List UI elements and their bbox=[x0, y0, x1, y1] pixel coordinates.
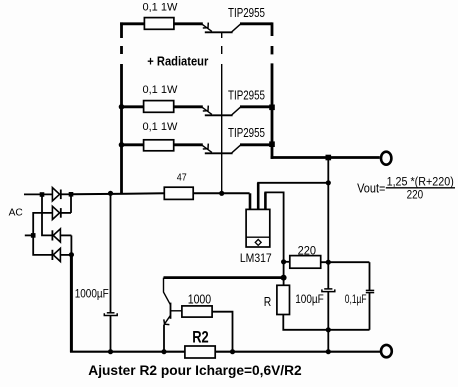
resistor R2 bbox=[185, 346, 215, 358]
wire top rail (unregulated input) bbox=[71, 193, 164, 194]
node output junction top bbox=[326, 155, 332, 161]
wire output rail vertical bbox=[327, 158, 329, 263]
wire base line (dash-dot vertical) bbox=[221, 32, 223, 38]
wire line A (AC1 to D3 cathode) bbox=[42, 194, 53, 235]
diode D1 bbox=[52, 188, 71, 201]
svg-text:AC: AC bbox=[9, 208, 23, 219]
pin IN (left) bbox=[249, 193, 252, 209]
wire AC1 input rail bbox=[24, 193, 53, 195]
resistor 47 bbox=[164, 187, 193, 199]
svg-text:1000: 1000 bbox=[188, 293, 212, 307]
svg-text:1000µF: 1000µF bbox=[75, 288, 109, 301]
resistor R_E3 0,1 1W row3 bbox=[120, 140, 203, 151]
wire caps bottom rail bbox=[328, 329, 369, 331]
wire line D (D3/D4 anodes) bbox=[70, 235, 72, 255]
node base-line junction bbox=[219, 191, 224, 196]
svg-text:220: 220 bbox=[298, 244, 317, 258]
svg-text:0,1 1W: 0,1 1W bbox=[143, 84, 178, 96]
node 1000/R2 junction bbox=[230, 349, 235, 354]
svg-text:0,1 1W: 0,1 1W bbox=[143, 121, 178, 133]
transistor Q4 current limit bbox=[164, 278, 182, 352]
diode D4 (reversed) bbox=[52, 248, 71, 261]
regulator U1 LM317 package bbox=[246, 209, 270, 247]
node ADJ/collector junction bbox=[281, 275, 287, 281]
svg-text:Ajuster R2 pour Icharge=0,6V/R: Ajuster R2 pour Icharge=0,6V/R2 bbox=[88, 363, 301, 379]
capacitor C1 1000uF bbox=[104, 193, 117, 351]
terminal output + bbox=[381, 152, 391, 165]
capacitor C2 100uF bbox=[322, 262, 335, 330]
resistor R_E1 0,1 1W row1 bbox=[120, 18, 203, 30]
wire negative rail (thick vertical) bbox=[70, 255, 73, 353]
node 220 right junction bbox=[326, 260, 331, 265]
diode D2 bbox=[52, 206, 71, 219]
node emitter junction bbox=[161, 349, 166, 354]
svg-text:0,1 1W: 0,1 1W bbox=[143, 1, 178, 13]
transistor Q1 TIP2955 bbox=[202, 23, 272, 33]
svg-text:TIP2955: TIP2955 bbox=[228, 126, 265, 140]
transistor Q3 TIP2955 bbox=[202, 144, 272, 154]
wire R bottom lead bbox=[283, 315, 328, 330]
node left rail row3 bbox=[119, 142, 125, 148]
wire bottom rail bbox=[70, 351, 380, 353]
svg-text:100µF: 100µF bbox=[295, 293, 324, 306]
svg-text:0,1µF: 0,1µF bbox=[345, 293, 367, 306]
node AC2 junction bbox=[31, 233, 36, 238]
right rail (dash-dot thick) bbox=[271, 22, 274, 36]
node left rail row2 bbox=[119, 104, 125, 110]
node 1000uF bottom bbox=[108, 349, 113, 354]
svg-text:Vout=: Vout= bbox=[357, 180, 385, 195]
node 1000uF tap bbox=[108, 191, 113, 196]
wire line C (D1/D2 cathodes) bbox=[70, 194, 72, 213]
wire line B (D2 anode to D4 cathode) bbox=[33, 213, 53, 255]
svg-text:1,25 *(R+220): 1,25 *(R+220) bbox=[387, 174, 454, 188]
diode D3 (reversed) bbox=[52, 229, 71, 242]
svg-text:47: 47 bbox=[177, 172, 187, 184]
pin ADJ (right) bbox=[264, 192, 267, 209]
node D1 cathode junction bbox=[69, 192, 74, 197]
transistor Q2 TIP2955 bbox=[202, 106, 272, 116]
svg-text:R2: R2 bbox=[192, 328, 209, 346]
resistor R_E2 0,1 1W row2 bbox=[120, 101, 203, 113]
wire current-limit collector line (thick) bbox=[164, 276, 284, 279]
left rail (dash-dot) bbox=[120, 22, 123, 38]
svg-text:TIP2955: TIP2955 bbox=[228, 6, 265, 20]
node AC1 junction bbox=[40, 192, 45, 197]
wire caps bottom drop bbox=[327, 330, 329, 352]
svg-text:+ Radiateur: + Radiateur bbox=[147, 54, 208, 69]
terminal output - bbox=[381, 345, 392, 357]
node ADJ/220 junction bbox=[281, 259, 286, 264]
svg-text:R: R bbox=[264, 294, 272, 309]
svg-text:220: 220 bbox=[407, 187, 424, 201]
node bottom rail junction bbox=[326, 349, 331, 354]
resistor R bbox=[277, 285, 290, 314]
node collector row2 bbox=[269, 105, 275, 111]
svg-text:LM317: LM317 bbox=[240, 251, 272, 265]
node D4 anode junction bbox=[69, 252, 74, 257]
node OUT junction bbox=[326, 180, 331, 185]
node caps bottom junction bbox=[326, 327, 331, 332]
wire output top line bbox=[271, 156, 380, 159]
pin OUT (middle) bbox=[257, 183, 260, 210]
node collector row3 bbox=[269, 141, 275, 147]
wire AC2 input rail bbox=[25, 234, 33, 236]
resistor 1000 bbox=[182, 306, 233, 352]
svg-text:TIP2955: TIP2955 bbox=[228, 89, 265, 103]
resistor 220 bbox=[284, 256, 370, 269]
capacitor C3 0,1uF bbox=[366, 262, 374, 330]
